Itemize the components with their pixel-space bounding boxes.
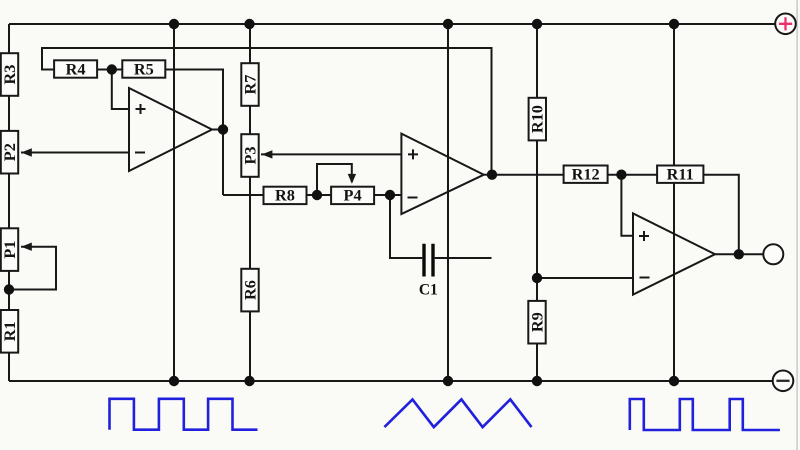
wire: +V top rail — [9, 23, 775, 25]
junction: top rail x=250 — [244, 19, 254, 29]
junction: bottom rail x=448 — [443, 376, 453, 386]
svg-text:R8: R8 — [275, 186, 295, 205]
wire: R11 right to U3 output node — [703, 175, 738, 255]
svg-text:P2: P2 — [0, 143, 19, 161]
op-amp U1 — [129, 88, 212, 171]
waveform: square wave at U1 output — [110, 399, 258, 430]
junction: R12/R11 node — [616, 170, 626, 180]
resistor R10 — [528, 98, 547, 141]
junction: U2 output node — [487, 170, 497, 180]
junction: bottom rail x=250 — [244, 376, 254, 386]
wire: U3 - input to R9/R10 node — [537, 277, 633, 279]
wire: U2 + input to P3 wiper — [261, 153, 401, 155]
potentiometer P2 — [0, 131, 19, 174]
terminal: -V supply — [773, 371, 794, 392]
terminal: +V supply — [775, 13, 796, 34]
op-amp U2 — [401, 134, 483, 214]
junction: top rail x=448 — [443, 19, 453, 29]
junction: P4/U2 - input node — [385, 190, 395, 200]
wire: left supply column x=9 — [8, 24, 10, 381]
svg-text:P1: P1 — [0, 241, 19, 259]
resistor R1 — [0, 310, 19, 353]
resistor R4 — [54, 59, 97, 78]
svg-text:C1: C1 — [419, 282, 438, 299]
arrowhead: P2 wiper — [21, 148, 32, 156]
junction: U1 output node — [218, 124, 228, 134]
wire: U2 output stub — [484, 174, 492, 176]
waveform: triangle wave at U2 output — [384, 399, 531, 427]
svg-text:P3: P3 — [240, 146, 259, 164]
wire: vertical net x=174 (top rail to bottom rail) — [173, 24, 175, 381]
wire: R8 to P4 — [306, 194, 332, 196]
page right edge rule — [796, 0, 798, 450]
junction: R9/U3 - input node — [532, 273, 542, 283]
wire: feedback loop U2 output to R4 (top y=48) — [42, 48, 492, 175]
junction: top rail x=674 — [669, 19, 679, 29]
resistor R6 — [240, 269, 259, 312]
resistor R8 — [264, 186, 307, 205]
junction: bottom rail x=537 — [532, 376, 542, 386]
svg-text:P4: P4 — [344, 186, 362, 205]
svg-text:R4: R4 — [66, 59, 86, 78]
wire: 0V bottom rail — [9, 380, 773, 382]
svg-text:R7: R7 — [240, 75, 259, 95]
potentiometer P3 — [240, 134, 259, 177]
svg-text:R6: R6 — [240, 280, 259, 300]
resistor R9 — [527, 301, 546, 344]
wire: U2 output to R12 — [492, 174, 564, 176]
junction: R8/P4 node — [312, 190, 322, 200]
arrowhead: P4 wiper — [348, 174, 356, 184]
resistor R11 — [657, 165, 703, 184]
svg-text:R9: R9 — [527, 312, 546, 332]
wire: R5 to U1 output node — [165, 70, 224, 196]
svg-text:R10: R10 — [528, 105, 547, 133]
wire: U1 output to R8 — [223, 194, 264, 196]
waveform: pulse wave at U3 output — [630, 399, 780, 430]
junction: R4/R5 node — [107, 64, 117, 74]
terminal: signal output — [763, 244, 783, 264]
resistor R12 — [564, 165, 608, 184]
svg-text:R3: R3 — [0, 65, 19, 85]
wire: vertical net x=448 (top rail to bottom rail) — [447, 24, 449, 381]
wire: U2 - node down to C1 left plate — [390, 195, 422, 258]
wire: R12/R11 node down to U3 + input — [621, 175, 633, 236]
resistor R3 — [0, 53, 19, 96]
wire: U1 output stub — [212, 129, 223, 131]
junction: P1/R1 node — [4, 284, 14, 294]
junction: top rail x=174 — [169, 19, 179, 29]
junction: bottom rail x=174 — [169, 376, 179, 386]
potentiometer P4 — [331, 186, 374, 205]
svg-text:R12: R12 — [572, 165, 600, 184]
svg-text:R1: R1 — [0, 321, 19, 341]
wire: R4 to R5 — [96, 69, 123, 71]
resistor R5 — [122, 59, 165, 78]
wire: C1 right plate to U2 output — [435, 257, 492, 259]
wire: P1 wiper loop to node below P1 — [9, 247, 56, 290]
wire: R7/P3/R6 column x=250 — [249, 24, 251, 381]
arrowhead: P3 wiper — [262, 150, 273, 158]
arrowhead: P1 wiper — [21, 243, 32, 251]
op-amp U3 — [633, 213, 715, 294]
junction: top rail x=537 — [532, 19, 542, 29]
wire: P4 to U2 - input — [373, 194, 402, 196]
wire: R12 to R11 node — [608, 174, 657, 176]
potentiometer P1 — [0, 228, 19, 271]
resistor R7 — [240, 63, 259, 106]
wire: vertical net x=674 (top rail to bottom rail) — [673, 24, 675, 381]
wire: U3 output stub — [715, 253, 763, 255]
wire: U1 - input to P2 wiper — [21, 152, 129, 154]
wire: R4/R5 node down to U1 + input — [112, 70, 129, 110]
junction: U3 output node — [734, 249, 744, 259]
svg-text:R11: R11 — [667, 165, 694, 184]
junction: bottom rail x=674 — [669, 376, 679, 386]
wire: R10/R9 column x=537 — [536, 24, 538, 381]
wire: P4 wiper loop — [317, 164, 352, 195]
capacitor C1 — [419, 244, 438, 299]
svg-text:R5: R5 — [134, 59, 154, 78]
